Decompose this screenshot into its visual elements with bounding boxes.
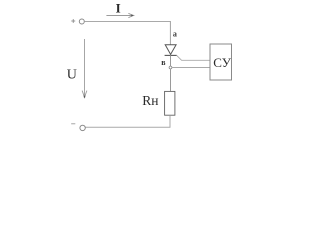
control unit box СУ [210, 44, 232, 80]
svg-text:a: a [173, 29, 177, 38]
svg-text:Rн: Rн [142, 93, 158, 108]
voltage arrow U [82, 39, 87, 98]
svg-text:I: I [116, 0, 121, 15]
svg-text:в: в [161, 58, 166, 67]
wire: node down to load resistor [170, 69, 172, 92]
terminal (bottom, −) [80, 125, 85, 130]
thyristor cathode bar [165, 54, 177, 56]
wire: cathode to node [170, 55, 172, 66]
current arrow I [106, 13, 133, 17]
resistor Rн body [165, 91, 175, 115]
node (cathode terminal circle) [169, 66, 172, 69]
minus sign (−) [71, 123, 75, 125]
terminal (top, +) [79, 19, 84, 24]
plus sign (+) at source terminal [71, 19, 75, 23]
thyristor VS (triangle) [165, 45, 176, 55]
wire: vertical drop to thyristor anode [169, 21, 171, 45]
wire: node to control unit [172, 67, 210, 69]
svg-text:СУ: СУ [213, 55, 231, 70]
wire: resistor to bottom rail [85, 115, 170, 127]
wire: top horizontal [84, 21, 170, 23]
svg-text:U: U [67, 67, 77, 82]
gate wire to control unit [177, 55, 210, 60]
